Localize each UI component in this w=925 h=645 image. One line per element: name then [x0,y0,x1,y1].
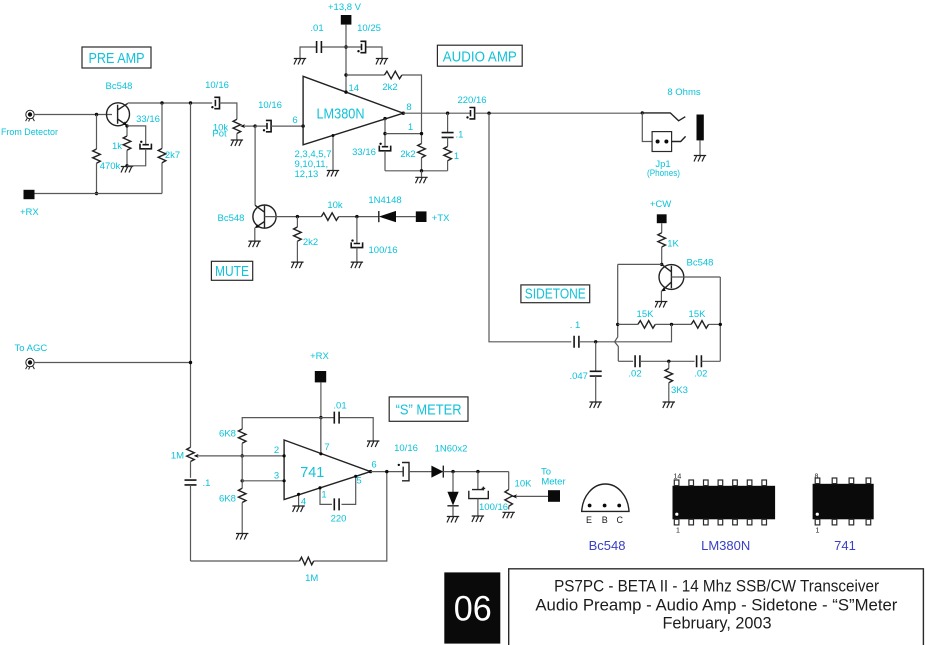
node 15K middle [670,323,673,326]
svg-text:Audio Preamp - Audio Amp - Sid: Audio Preamp - Audio Amp - Sidetone - “S… [535,595,897,614]
svg-text:1N4148: 1N4148 [368,195,401,206]
ground bypass right [376,59,388,65]
wire .1 branch down [447,113,449,132]
svg-text:From Detector: From Detector [1,127,58,138]
svg-text:+RX: +RX [20,207,39,218]
wire 10k to diode [339,216,379,218]
wire 15K row middle [655,323,691,325]
svg-text:1: 1 [408,122,413,133]
wire .1 to junction [579,341,615,343]
capacitor 100/16 mute [351,242,362,247]
wire shunt diode drop [452,472,454,492]
wire bypass rail left [300,47,346,58]
title box border [509,569,924,645]
ground 10K trimmer [503,512,515,518]
wire 1K to collector [661,247,663,264]
node pin8 [402,112,405,115]
resistor 2k7 [158,103,166,194]
svg-text:+RX: +RX [310,351,329,362]
node AGC junction [189,361,192,364]
svg-text:33/16: 33/16 [136,114,160,125]
node base junction [95,113,98,116]
svg-text:1k: 1k [112,141,122,152]
svg-text:Pot: Pot [212,129,227,140]
label box S METER [389,397,468,421]
wire feedback left column [615,264,619,361]
svg-text:PRE AMP: PRE AMP [89,50,145,67]
capacitor .047 [590,371,602,376]
wire emitter sidetone [660,291,662,301]
pin dot C [617,504,621,508]
ground bypass left [294,59,306,65]
wire .047 to ground [595,376,597,401]
transistor Q3 Bc548 sidetone [659,264,684,291]
svg-text:6: 6 [292,115,297,126]
wire 220/16 to jack [475,112,643,114]
wire 3K3 drop [668,361,670,368]
svg-text:Bc548: Bc548 [218,213,245,224]
wire cap to diode [409,471,432,473]
svg-text:3: 3 [274,471,279,482]
svg-text:MUTE: MUTE [215,263,249,280]
svg-text:.01: .01 [310,23,323,34]
wire 1M to .1 [190,462,192,478]
svg-text:AUDIO AMP: AUDIO AMP [443,49,517,66]
package outline Bc548 TO-92 [582,484,629,511]
svg-text:LM380N: LM380N [317,106,365,123]
svg-text:1M: 1M [305,573,318,584]
svg-text:33/16: 33/16 [352,147,376,158]
svg-text:1M: 1M [171,451,184,462]
wire pin2 pin3 column [241,456,243,481]
svg-text:7: 7 [324,442,329,453]
node pin3 column [241,479,244,482]
connector J-in (From Detector) [26,110,35,121]
ground pot [231,140,243,146]
node shunt diode junction [451,470,454,473]
wire 1 to bottom rail [447,161,449,171]
svg-text:15K: 15K [689,309,707,320]
svg-text:14: 14 [349,83,360,94]
wire 15K row right lead [709,323,721,325]
node pin1 [383,117,386,120]
wire 6K8 upper to pin2 [241,443,243,456]
wire +13.8 down to pin14 [345,25,347,93]
label box AUDIO AMP [437,45,522,66]
node sidetone tap [487,112,490,115]
resistor 6K8 upper [238,429,246,443]
wire collector rail [128,102,213,104]
capacitor 10/16 smeter [402,463,409,481]
capacitor 10/25 [360,41,365,52]
svg-text:Bc548: Bc548 [589,538,626,553]
wire diode to +TX [396,216,416,218]
wire .01 line right [321,418,373,441]
capacitor 33/16 amp [379,146,390,151]
svg-text:.01: .01 [333,401,346,412]
node pin4 edge [297,493,300,496]
label box PRE AMP [82,47,151,68]
svg-text:C: C [617,515,624,525]
resistor 15K left [638,321,655,329]
node bypass junction [344,45,347,48]
node pin3 edge [283,479,286,482]
node 3K3 junction [667,360,670,363]
capacitor .1 out [442,133,454,138]
wire 1k to ground [126,150,128,166]
node 470k rail junction [95,192,98,195]
wire +CW to 1K [661,223,663,233]
polarity dot 33/16 amp [379,143,381,145]
node gnd pins [332,134,335,137]
svg-text:E: E [586,515,592,525]
svg-text:2k2: 2k2 [382,82,397,93]
ground 6K8 lower [236,534,248,540]
svg-text:(Phones): (Phones) [647,168,680,179]
svg-text:2k2: 2k2 [400,149,415,160]
SECTION: PREAMP [1,47,305,447]
wire .047 drop [595,342,597,372]
svg-text:10/16: 10/16 [394,443,418,454]
node pin2 column [241,454,244,457]
wire 100/16 to ground [477,499,479,516]
svg-text:741: 741 [834,538,856,553]
node 2k2 mute junction [296,215,299,218]
svg-text:10/16: 10/16 [205,80,229,91]
wire feedback left [346,74,385,76]
wire 100/16 drop [356,217,358,243]
node AGC column top [189,101,192,104]
SECTION: SIDETONE [489,113,722,408]
pad +TX [416,211,427,222]
wire pin1 comp [320,488,332,505]
capacitor .01 bypass [317,41,322,53]
node .047 junction [594,340,597,343]
label box MUTE [211,261,252,280]
wire pin1 down [384,119,386,147]
wire base junction down [96,115,98,150]
label To Meter [541,467,566,488]
node pin5 edge [354,475,357,478]
capacitor 33/16 [140,144,151,149]
resistor 1K sidetone [658,233,666,247]
svg-text:.1: .1 [456,130,464,141]
svg-text:10K: 10K [515,479,533,490]
svg-text:2k7: 2k7 [165,150,180,161]
wire 2k2 to bottom rail [421,158,423,171]
resistor 10k pot [233,119,241,133]
svg-text:220/16: 220/16 [457,95,486,106]
svg-text:8: 8 [815,474,819,481]
svg-text:470k: 470k [100,161,121,172]
ground sidetone emitter [655,302,667,308]
pin labels 2,3,4,5,7 9,10,11, 12,13 [295,149,332,180]
node pin6 output [369,470,372,473]
wire collector up [127,102,129,104]
node .01 junction [319,416,322,419]
wire emitter down [126,125,128,136]
wire +RX rail [35,193,163,195]
package LM380N DIP-14 [673,480,776,525]
capacitor 220 comp [334,498,339,510]
svg-text:6K8: 6K8 [219,429,236,440]
svg-text:Bc548: Bc548 [106,81,133,92]
wire 3K3 to ground [668,383,670,402]
wire +RX down to pin7 [320,382,322,453]
resistor 10k mute [321,213,338,221]
ground LM380 pins [327,171,339,177]
wire bottom rail [385,170,448,172]
svg-text:Meter: Meter [541,477,565,488]
node bottom rail ground [420,169,423,172]
svg-text:February, 2003: February, 2003 [663,613,772,632]
svg-text:+TX: +TX [432,213,450,224]
wire bypass rail right [346,47,382,58]
wire .1 to bottom loop [190,485,192,561]
capacitor 100/16 smeter [469,490,489,499]
pad +RX smeter [315,371,326,382]
capacitor .02 left [635,355,640,367]
SECTION: POWER+AMP [294,2,643,183]
node pin2 edge [283,454,286,457]
node output loop junction [385,470,388,473]
node 2k7 top [160,101,163,104]
resistor 15K right [691,321,708,329]
wire bottom rail to ground [421,171,423,177]
node emitter [125,124,128,127]
wire pot to ground [236,134,238,140]
svg-text:Bc548: Bc548 [687,258,714,269]
ground 100/16 mute [351,262,363,268]
wire pin7 [320,418,322,454]
svg-text:6: 6 [371,460,376,471]
ground 2k2 mute [291,262,303,268]
svg-text:6K8: 6K8 [219,494,236,505]
svg-text:.1: .1 [203,478,211,489]
wire diode on [443,471,508,473]
ground mute emitter [248,241,260,247]
polarity dot 10/16 smeter [398,464,400,466]
wire output [403,112,470,114]
svg-text:220: 220 [331,514,347,525]
svg-text:To AGC: To AGC [15,343,48,354]
wire pin1 to 2k2 column [385,133,422,135]
wire bottom loop [191,472,387,561]
svg-text:LM380N: LM380N [701,538,750,553]
wire 100/16 drop [477,472,479,490]
wire .01 line left [242,418,321,429]
pad +RX [24,190,35,199]
node 15K right [719,323,722,326]
svg-text:“S” METER: “S” METER [396,402,462,419]
wire plug to ground [699,140,701,155]
wire middle tap down [615,324,672,341]
wire sidetone input from amp [489,113,571,342]
svg-text:1K: 1K [667,239,679,250]
svg-text:10k: 10k [327,200,343,211]
wire jack left drop [642,113,652,142]
resistor 470k [93,149,101,163]
svg-text:12,13: 12,13 [295,169,319,180]
svg-text:+CW: +CW [650,199,671,210]
svg-text:5: 5 [356,476,361,487]
wire right column [719,277,721,361]
wire .1 to resistor 1 [447,137,449,146]
svg-text:100/16: 100/16 [479,502,508,513]
capacitor 10/16 first [214,97,219,108]
wire 33/16 to bottom rail [384,151,386,171]
ground pin4 [292,506,304,512]
svg-text:.047: .047 [569,371,588,382]
wire bottom row left [618,360,633,362]
capacitor .02 right [697,355,702,367]
trimmer 1M wiper arrow [194,454,284,458]
svg-text:10/25: 10/25 [357,23,381,34]
wire cap to pin6 [271,125,303,127]
node 15K left [616,323,619,326]
wire output to cap [371,471,403,473]
svg-text:2: 2 [274,445,279,456]
connector To AGC [26,358,35,369]
diode D2 1N60 series [431,466,443,478]
ground 100/16 smeter [472,516,484,522]
resistor 1 [444,147,452,161]
wire input to base [34,114,112,116]
package 741 DIP-8 [813,478,874,525]
wire To AGC [34,362,191,364]
ground jack [694,156,706,162]
wire emitter to ground [254,228,256,241]
resistor 2k2 feedback [385,71,402,79]
svg-text:2k2: 2k2 [303,237,318,248]
svg-text:1N60x2: 1N60x2 [435,444,468,455]
svg-text:1: 1 [454,151,459,162]
polarity dot 100/16 mute [351,239,353,241]
node collector junction [660,263,663,266]
node 33/16 bottom [125,164,128,167]
capacitor 220/16 [469,108,474,119]
svg-text:+13,8 V: +13,8 V [328,2,362,13]
wire gnd pins [332,136,334,171]
svg-text:1: 1 [321,490,326,501]
wire emitter to 33/16 [127,126,146,144]
wire 10/16 to pot top [220,103,237,119]
trimmer 10K wiper [512,494,550,498]
wire bottom row right [701,360,720,362]
wire bottom row middle [640,360,695,362]
diode D3 1N60 shunt [447,492,458,506]
svg-text:10/16: 10/16 [258,100,282,111]
svg-text:. 1: . 1 [570,320,581,331]
SECTION: MUTE [211,126,450,280]
resistor 3K3 [665,369,673,383]
SECTION: PACKAGES [582,474,874,554]
node output .1 branch [446,112,449,115]
node pin1 edge [318,486,321,489]
node feedback junction [344,73,347,76]
svg-text:741: 741 [300,464,324,481]
transistor Q2 Bc548 mute [253,205,276,228]
op-amp U1 LM380N triangle [303,76,403,145]
SECTION: TITLEBLOCK [444,569,923,645]
pot wiper arrow [240,124,255,128]
resistor 1k [123,136,131,150]
label 10k Pot [212,123,228,140]
capacitor 10/16 second [266,120,271,131]
pad +CW [657,214,667,223]
capacitor .1 sidetone [574,336,579,348]
svg-text:14: 14 [674,474,682,481]
node pin7 edge [319,452,322,455]
wire pin4 [298,494,300,505]
ground preamp emitter [121,167,133,173]
ground 3K3 [663,402,675,408]
transistor Q1 Bc548 [107,103,130,126]
trimmer 10K meter [505,472,513,510]
capacitor .01 smeter [334,412,339,424]
op-amp U2 741 triangle [284,440,370,500]
wire collector column from wiper [254,126,256,205]
wire jack switch contact [642,113,685,121]
node 100/16 mute junction [355,215,358,218]
wire 470k to +RX rail [96,163,98,193]
SECTION: SMETER [15,343,566,584]
pad +13.8V [341,15,352,25]
label box SIDETONE [521,285,590,303]
svg-text:06: 06 [454,590,492,629]
wire wiper to cap [255,125,267,127]
ground amp zobel [415,177,427,183]
node wiper junction [253,124,256,127]
svg-text:1: 1 [816,528,820,535]
SECTION: OUTPUT JACK [641,87,707,179]
node 100/16 junction [476,470,479,473]
svg-text:B: B [602,515,608,525]
wire base to right column [671,276,720,278]
wire shunt diode to ground [452,506,454,516]
pin dot B [603,504,607,508]
ground .01 smeter [367,441,379,447]
ground shunt diode [447,517,459,523]
svg-text:8: 8 [406,102,411,113]
ground .047 [590,402,602,408]
wire feedback top [618,263,662,265]
svg-text:.02: .02 [694,369,707,380]
resistor 2k2 vertical [418,144,426,158]
polarity dot 220/16 [466,116,468,118]
pad To Meter [548,490,560,502]
wire 100/16 to ground [356,248,358,262]
svg-text:PS7PC - BETA II - 14 Mhz SSB/: PS7PC - BETA II - 14 Mhz SSB/CW Transcei… [554,577,879,596]
wire Jp1 to contact [672,136,686,141]
svg-text:.02: .02 [628,369,641,380]
page number box 06 [444,572,500,643]
wire pin3 line [242,480,284,482]
svg-text:15K: 15K [637,309,655,320]
wire pin5 comp [342,476,356,504]
node pin6 [301,124,304,127]
resistor 1M bottom [300,557,314,565]
wire feedback right down [402,75,422,144]
jumper Jp1 box [652,132,672,152]
polarity dot 10/16 [211,106,213,108]
wire base to 10k [265,216,322,218]
diode D1 1N4148 [379,211,396,222]
svg-text:1: 1 [676,528,680,535]
speaker phone plug bar [697,115,704,141]
wire 33/16 down-left [127,149,146,166]
polarity dot 10/16 second [263,129,265,131]
